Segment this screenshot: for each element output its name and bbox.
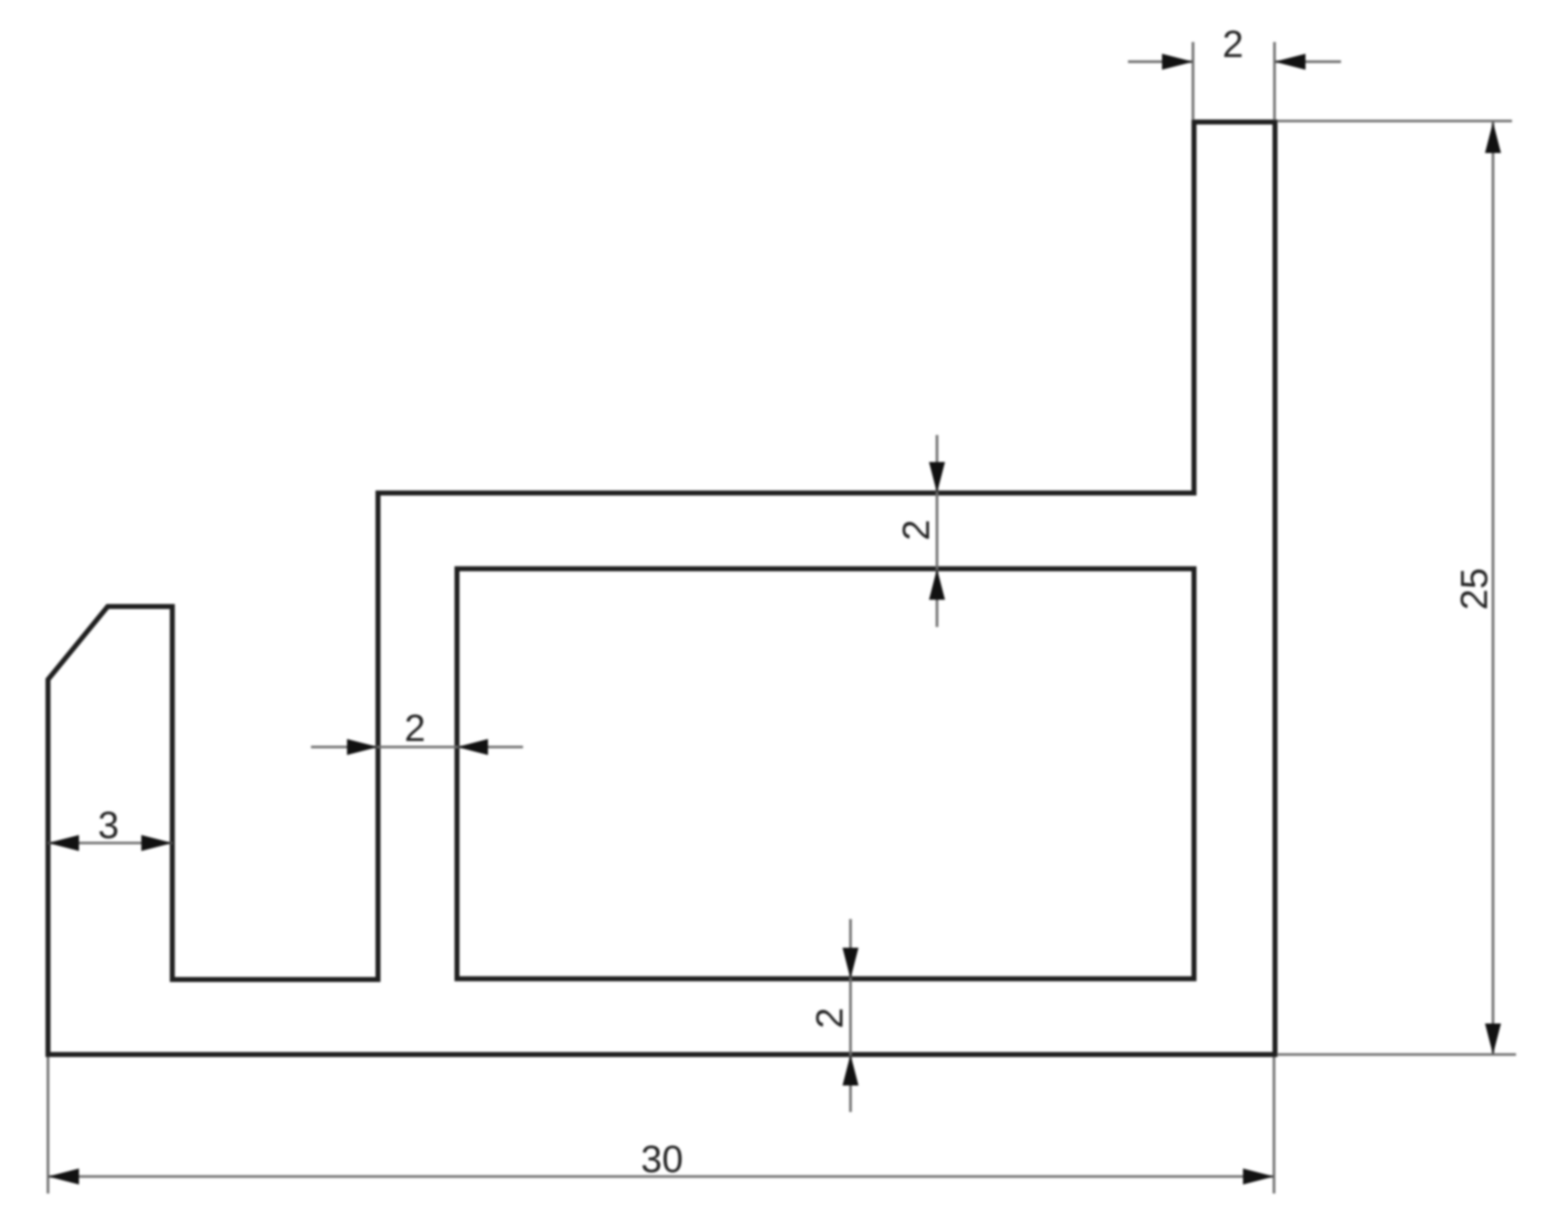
dimension right 25: arrowheads [1485,122,1501,1055]
svg-text:2: 2 [404,708,425,750]
svg-text:2: 2 [896,519,938,540]
dimension top wall 2 (vertical): dimension line [936,435,939,627]
svg-text:2: 2 [1222,24,1243,66]
dimension middle 2: arrowheads [347,739,488,755]
dimension top wall 2: arrowheads [929,462,945,600]
dimension bottom 30: arrowheads [48,1169,1274,1185]
inner rectangular cutout [457,569,1194,979]
svg-text:2: 2 [810,1007,852,1028]
dimension middle 2 (web width): dimension line [311,746,523,749]
dimension right 25: extension lines [1277,121,1516,1055]
dimension bottom wall 2 (vertical): dimension line [849,919,852,1112]
svg-text:3: 3 [98,805,119,847]
dimension left 3: dimension line [48,842,172,845]
dimension bottom wall 2: arrowheads [843,948,859,1086]
dimension top 2: dimension line [1128,60,1341,63]
dimension top 2: arrowheads [1162,54,1306,70]
svg-text:30: 30 [641,1139,683,1181]
dimension bottom 30: extension lines [48,1057,1274,1194]
dimension right 25: dimension line [1492,122,1495,1055]
dimension top 2: extension lines [1193,42,1275,120]
dimension bottom 30: dimension line [48,1175,1274,1178]
profile outer outline [48,122,1275,1055]
dimension left 3: arrowheads [48,835,172,851]
svg-text:25: 25 [1454,568,1496,610]
